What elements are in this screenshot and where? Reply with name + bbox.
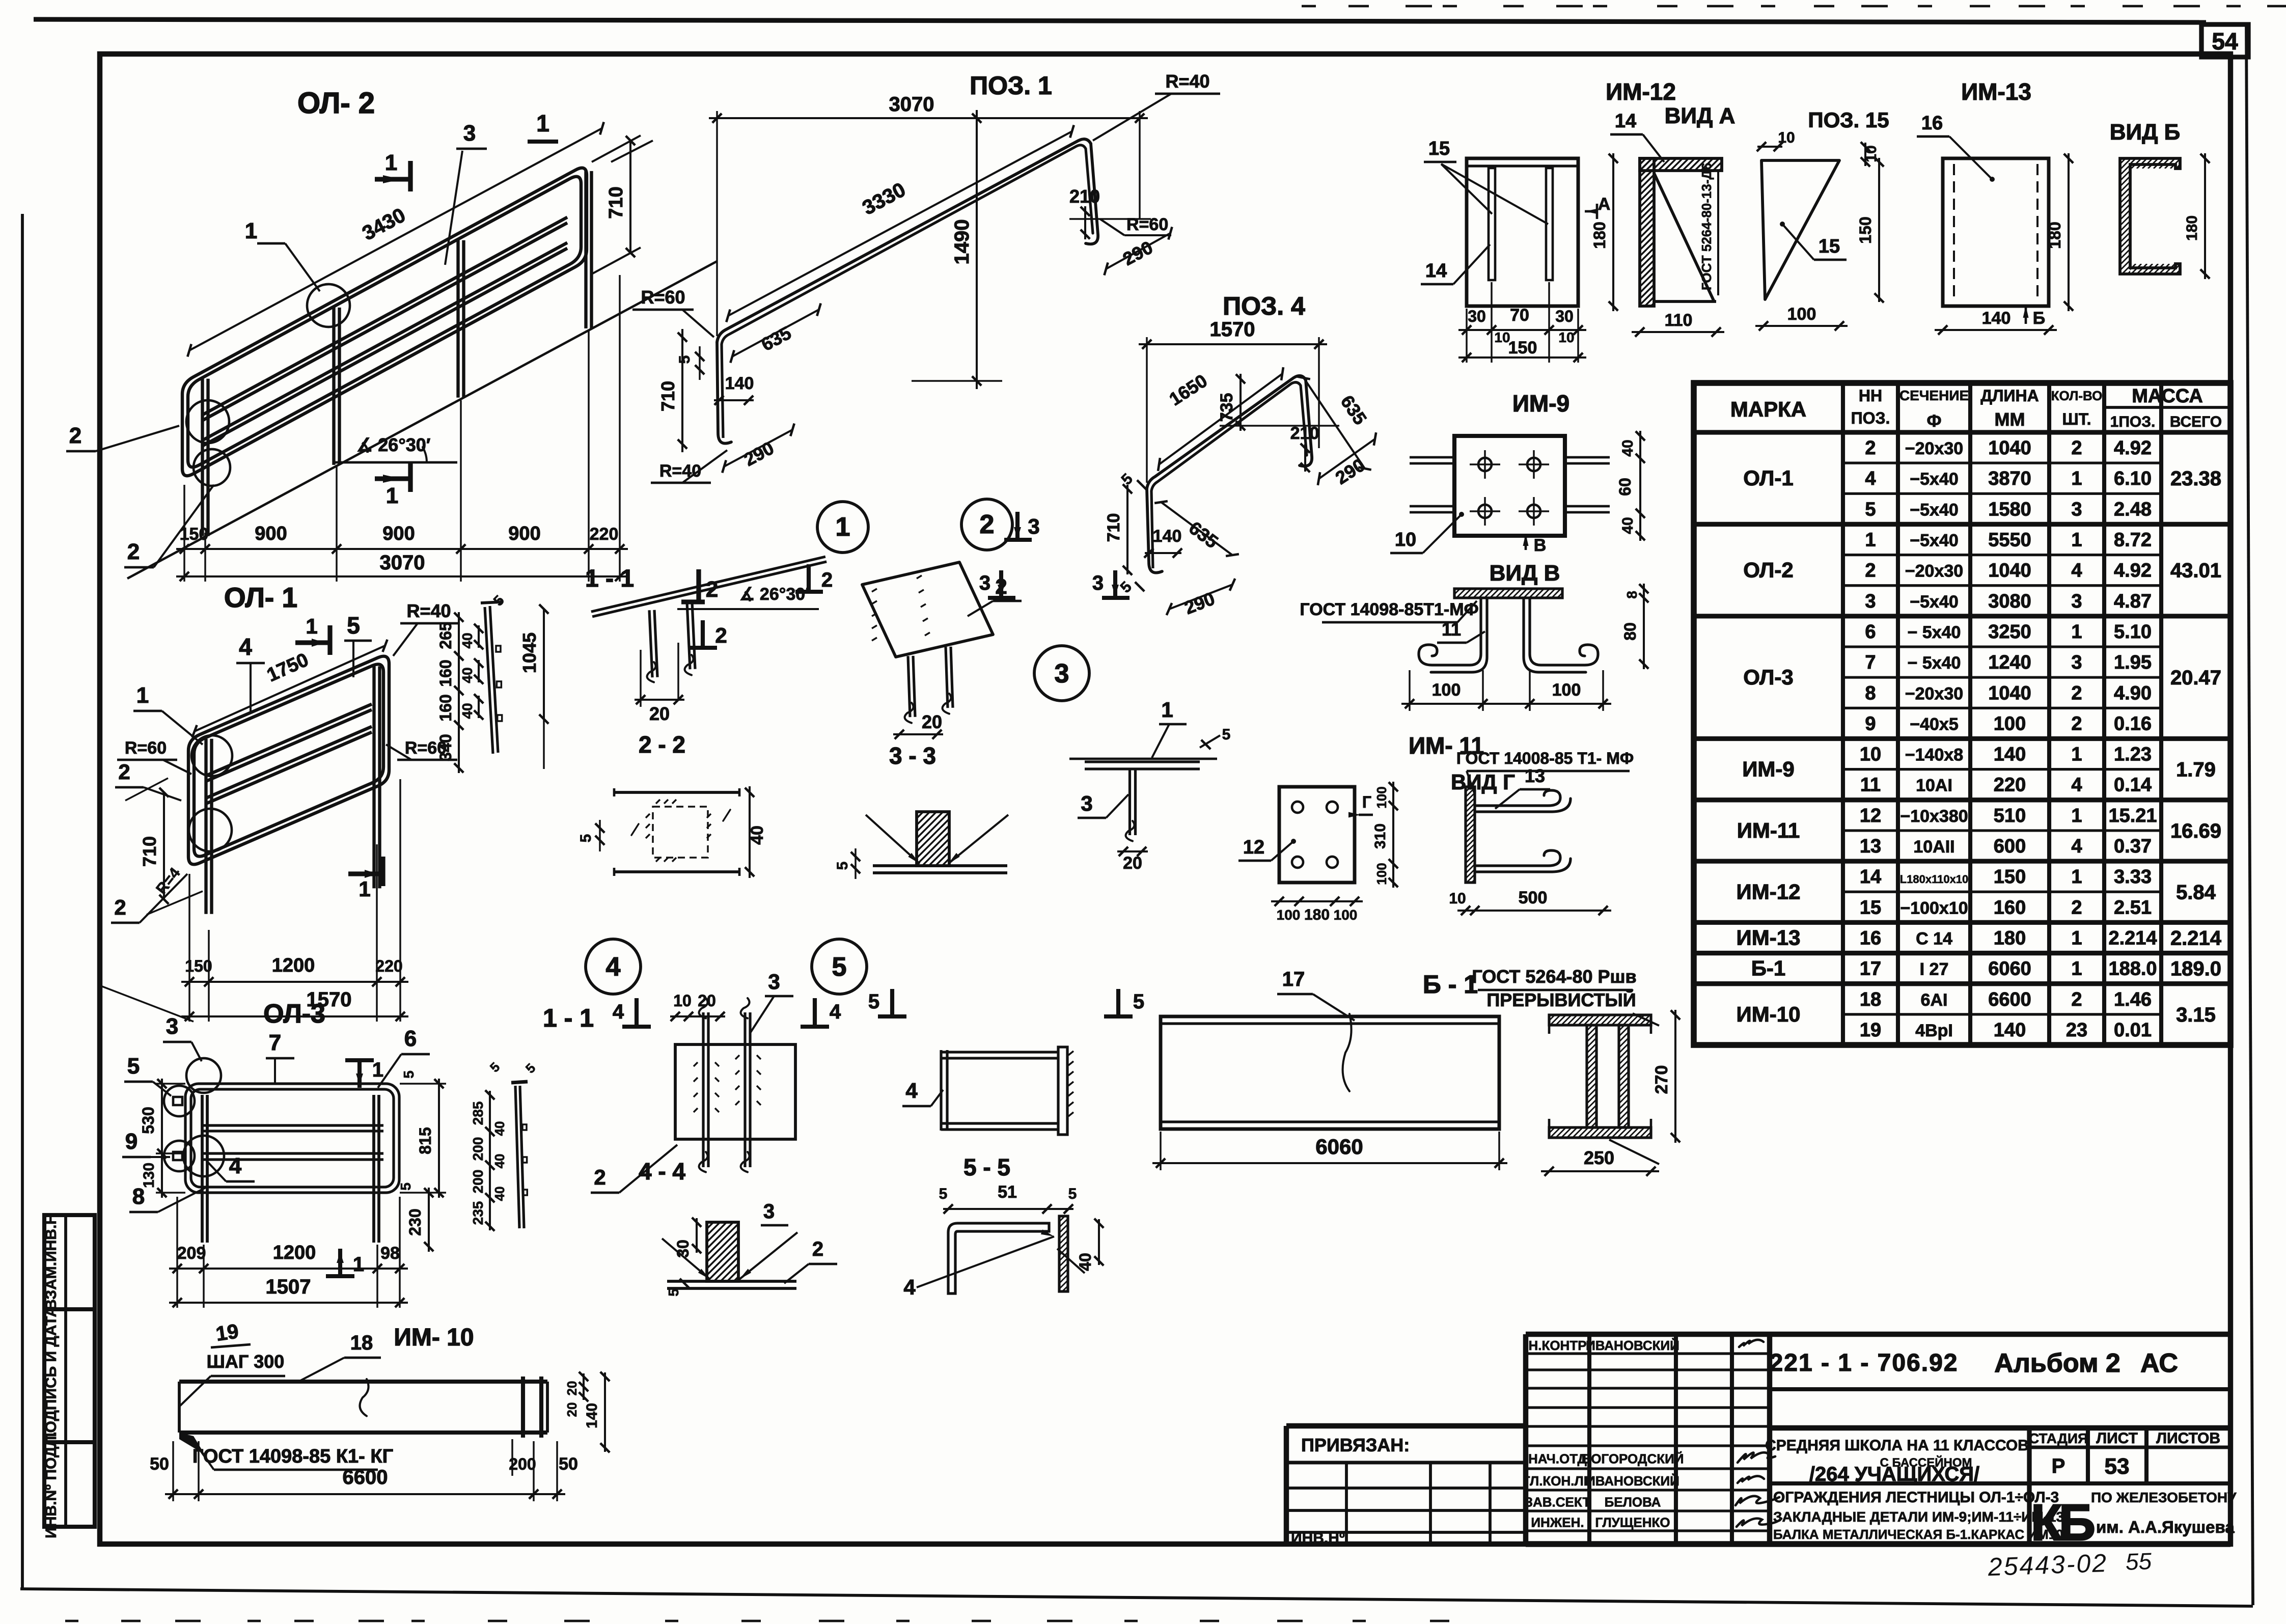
IM-13 dim 180 <box>2068 153 2070 311</box>
title block main box <box>1770 1332 2230 1337</box>
svg-text:15: 15 <box>1860 897 1881 918</box>
I-section dim 250 <box>1541 1170 1659 1172</box>
svg-text:4: 4 <box>2071 775 2082 796</box>
svg-text:2: 2 <box>2071 713 2082 734</box>
OL-2 dim 3430 along slope <box>189 128 602 350</box>
svg-text:735: 735 <box>1217 393 1236 422</box>
svg-text:70: 70 <box>1510 306 1529 325</box>
svg-text:150: 150 <box>185 957 212 975</box>
svg-text:15.21: 15.21 <box>2108 805 2157 827</box>
svg-text:23.38: 23.38 <box>2170 467 2221 490</box>
joint detail dim 20 <box>640 650 641 707</box>
svg-text:900: 900 <box>255 523 287 544</box>
OL-2 section mark 1 bottom <box>375 476 410 481</box>
svg-text:−5х40: −5х40 <box>1910 500 1959 519</box>
svg-text:1: 1 <box>2071 468 2082 489</box>
paper right edge line <box>2246 24 2253 1605</box>
svg-text:ПОЗ.: ПОЗ. <box>1851 409 1890 427</box>
svg-text:5: 5 <box>1133 990 1144 1013</box>
svg-text:I 27: I 27 <box>1920 960 1949 979</box>
svg-text:ОЛ-1: ОЛ-1 <box>1743 466 1793 490</box>
svg-text:1 - 1: 1 - 1 <box>543 1004 594 1032</box>
svg-text:6060: 6060 <box>1315 1135 1363 1159</box>
svg-text:4.87: 4.87 <box>2114 591 2152 612</box>
svg-text:3: 3 <box>768 970 780 994</box>
svg-text:ШТ.: ШТ. <box>2062 410 2091 428</box>
OL-1 long bottom extension line <box>101 986 194 1022</box>
weld detail under 3-3 <box>873 864 1007 867</box>
svg-text:3.15: 3.15 <box>2176 1004 2216 1026</box>
svg-text:4: 4 <box>905 1079 918 1103</box>
svg-text:ИМ-13: ИМ-13 <box>1737 925 1801 949</box>
svg-text:3: 3 <box>463 121 476 146</box>
svg-text:1: 1 <box>306 614 317 638</box>
section mark 4 down-left <box>635 998 639 1027</box>
post bar 1-1 <box>485 607 493 754</box>
svg-text:40: 40 <box>1619 517 1636 534</box>
svg-text:2: 2 <box>2071 437 2082 459</box>
svg-text:R=60: R=60 <box>641 287 685 308</box>
svg-text:ГОСТ 14098-85 К1- КГ: ГОСТ 14098-85 К1- КГ <box>192 1446 393 1467</box>
svg-text:Р: Р <box>2052 1455 2065 1477</box>
railing OL-2 band <box>182 372 202 476</box>
svg-text:ИМ-9: ИМ-9 <box>1512 390 1569 417</box>
svg-text:17: 17 <box>1860 958 1881 980</box>
svg-text:5 - 5: 5 - 5 <box>963 1154 1010 1180</box>
svg-text:1: 1 <box>536 110 549 136</box>
svg-text:ЗАКЛАДНЫЕ ДЕТАЛИ ИМ-9;ИМ-11÷ИМ: ЗАКЛАДНЫЕ ДЕТАЛИ ИМ-9;ИМ-11÷ИМ-13 <box>1773 1509 2064 1525</box>
svg-text:4: 4 <box>2071 560 2082 582</box>
circled pos marker 1 <box>817 502 868 553</box>
svg-text:10: 10 <box>1860 744 1881 765</box>
svg-text:18: 18 <box>350 1332 373 1354</box>
IM-11 view G arrow <box>1359 814 1373 816</box>
svg-text:1: 1 <box>245 218 257 243</box>
svg-text:3080: 3080 <box>1988 591 2031 612</box>
svg-text:3 - 3: 3 - 3 <box>889 742 936 769</box>
svg-text:2: 2 <box>2071 989 2082 1010</box>
svg-text:R=60: R=60 <box>125 738 167 758</box>
svg-text:100: 100 <box>1374 786 1389 808</box>
svg-text:130: 130 <box>141 1163 157 1188</box>
gusset 3-3 plate <box>862 562 993 657</box>
svg-text:3870: 3870 <box>1988 468 2031 489</box>
svg-text:6060: 6060 <box>1988 958 2031 980</box>
tee detail rail bar <box>1069 758 1217 760</box>
svg-text:1: 1 <box>385 150 397 175</box>
tee detail dim 20 <box>1117 850 1148 852</box>
svg-text:2.214: 2.214 <box>2108 927 2157 949</box>
svg-text:340: 340 <box>436 734 455 761</box>
svg-text:54: 54 <box>2212 28 2238 54</box>
svg-text:Альбом 2: Альбом 2 <box>1994 1348 2120 1378</box>
svg-text:14: 14 <box>1425 260 1447 282</box>
svg-text:10: 10 <box>1449 890 1466 907</box>
svg-text:R=40: R=40 <box>406 600 451 621</box>
svg-text:180: 180 <box>1304 906 1330 923</box>
POZ.1 dim 3070 top <box>716 111 718 336</box>
svg-text:ГОСТ 5264-80 Ршв: ГОСТ 5264-80 Ршв <box>1472 966 1636 987</box>
svg-text:4ВрI: 4ВрI <box>1915 1021 1953 1040</box>
post bar dim 1045 <box>543 609 545 719</box>
svg-text:ОГРАЖДЕНИЯ ЛЕСТНИЦЫ ОЛ-1÷ОЛ-3: ОГРАЖДЕНИЯ ЛЕСТНИЦЫ ОЛ-1÷ОЛ-3 <box>1773 1489 2059 1506</box>
circled pos marker 4 <box>586 939 641 994</box>
svg-text:1045: 1045 <box>519 632 540 673</box>
bar IM-10 body <box>179 1380 547 1384</box>
rod POZ.4 body <box>1147 376 1312 573</box>
svg-text:53: 53 <box>2105 1454 2130 1479</box>
svg-text:1507: 1507 <box>266 1276 311 1298</box>
svg-text:8.72: 8.72 <box>2114 530 2152 551</box>
svg-text:4: 4 <box>903 1275 916 1299</box>
poz 15 triangle <box>1761 160 1839 299</box>
svg-text:2.214: 2.214 <box>2170 927 2222 949</box>
svg-text:3: 3 <box>1055 659 1069 689</box>
detail 4 weld ticks <box>694 1062 698 1066</box>
svg-text:1: 1 <box>2071 744 2082 765</box>
svg-text:3: 3 <box>2071 591 2082 612</box>
bar IM-10 left weld wedge <box>179 1433 205 1454</box>
thin bar 1-1 near OL-3 <box>515 1086 519 1228</box>
svg-text:10: 10 <box>1558 329 1574 345</box>
POZ.1 dim 1490 vertical <box>912 380 1002 381</box>
svg-text:ПРИВЯЗАН:: ПРИВЯЗАН: <box>1301 1435 1410 1455</box>
svg-text:4: 4 <box>606 952 621 982</box>
privyazan block <box>1286 1423 1526 1428</box>
svg-text:5: 5 <box>127 1054 140 1079</box>
svg-text:С 14: С 14 <box>1916 929 1952 948</box>
svg-text:10АI: 10АI <box>1916 776 1952 795</box>
OL-2 leader 1 <box>257 242 285 245</box>
svg-text:270: 270 <box>1652 1065 1671 1094</box>
svg-text:6: 6 <box>404 1026 417 1051</box>
section mark 3 down near circled2 <box>1015 512 1020 540</box>
svg-text:2: 2 <box>2071 682 2082 704</box>
svg-text:40: 40 <box>492 1154 507 1169</box>
svg-text:4: 4 <box>1865 468 1876 489</box>
svg-text:5: 5 <box>1068 1186 1077 1202</box>
svg-text:1: 1 <box>2071 530 2082 551</box>
svg-text:210: 210 <box>1290 424 1319 443</box>
svg-text:140: 140 <box>1982 309 2011 328</box>
svg-text:3250: 3250 <box>1988 621 2031 643</box>
svg-text:ПОЗ. 1: ПОЗ. 1 <box>970 71 1052 100</box>
svg-text:5: 5 <box>834 862 851 870</box>
svg-text:ВИД В: ВИД В <box>1490 561 1560 586</box>
svg-text:4: 4 <box>2071 836 2082 857</box>
svg-text:4 - 4: 4 - 4 <box>639 1158 685 1185</box>
svg-text:1.23: 1.23 <box>2114 744 2152 765</box>
section 2-2 break marks <box>631 824 639 835</box>
svg-text:11: 11 <box>1442 619 1461 640</box>
svg-text:12: 12 <box>1243 837 1264 858</box>
svg-text:5: 5 <box>868 990 879 1013</box>
svg-text:230: 230 <box>406 1208 424 1235</box>
svg-text:им. А.А.Якушева: им. А.А.Якушева <box>2096 1518 2235 1536</box>
IM-11 plate <box>1279 787 1355 883</box>
svg-text:100: 100 <box>1374 863 1389 885</box>
joint detail angle 26-30 <box>677 608 819 610</box>
view B channel <box>2120 158 2180 274</box>
svg-text:20: 20 <box>1123 854 1142 873</box>
svg-text:ГОСТ 5264-80-13-Д6: ГОСТ 5264-80-13-Д6 <box>1699 163 1714 291</box>
OL-2 extension lines to dims <box>183 485 185 582</box>
svg-text:ДЛИНА: ДЛИНА <box>1980 387 2039 405</box>
svg-text:150: 150 <box>1994 866 2026 888</box>
svg-text:ОЛ-3: ОЛ-3 <box>1743 665 1793 689</box>
svg-text:6.10: 6.10 <box>2114 468 2152 489</box>
OL-3 extension lines bottom <box>176 1197 178 1308</box>
OL-1 section mark 1 bottom <box>348 871 383 876</box>
svg-text:209: 209 <box>177 1244 206 1263</box>
svg-text:1: 1 <box>1865 530 1876 551</box>
svg-text:4: 4 <box>830 1001 841 1023</box>
svg-text:5: 5 <box>1865 499 1876 520</box>
svg-text:ГОСТ 14098-85Т1-МФ: ГОСТ 14098-85Т1-МФ <box>1300 600 1478 619</box>
svg-text:3070: 3070 <box>380 552 425 574</box>
svg-text:160: 160 <box>436 694 455 721</box>
svg-text:3: 3 <box>166 1014 178 1039</box>
IM-13 dim 140 and B arrow <box>1935 329 2057 331</box>
svg-text:R=60: R=60 <box>1126 215 1168 234</box>
circled pos marker 5 <box>812 939 867 994</box>
svg-text:МАССА: МАССА <box>2132 386 2203 407</box>
svg-text:310: 310 <box>1372 823 1389 849</box>
section mark 5 down-left <box>890 989 894 1016</box>
joint detail section 2 mark <box>807 564 811 592</box>
svg-text:2: 2 <box>594 1165 605 1189</box>
svg-text:1: 1 <box>2071 958 2082 980</box>
svg-text:188.0: 188.0 <box>2108 958 2157 980</box>
svg-text:КОЛ-ВО: КОЛ-ВО <box>2051 388 2103 403</box>
svg-text:15: 15 <box>1819 236 1840 257</box>
svg-text:710: 710 <box>1104 513 1123 542</box>
svg-text:3: 3 <box>1865 591 1876 612</box>
POZ.4 dim 1650 <box>1159 374 1282 464</box>
svg-text:2: 2 <box>114 895 126 919</box>
svg-text:ОЛ-3: ОЛ-3 <box>263 999 325 1029</box>
svg-text:ИНВ.Nº ПОДЛ.: ИНВ.Nº ПОДЛ. <box>43 1432 60 1538</box>
callout circle on OL-2 top rail <box>307 284 350 327</box>
svg-text:−5х40: −5х40 <box>1910 470 1959 489</box>
svg-text:40: 40 <box>492 1187 507 1201</box>
svg-text:710: 710 <box>605 186 627 218</box>
svg-text:ЛИСТОВ: ЛИСТОВ <box>2156 1430 2220 1447</box>
thin bar dims <box>489 1091 491 1230</box>
svg-text:220: 220 <box>375 957 402 975</box>
OL-1 dim 1750 <box>195 646 385 731</box>
OL-2 dim chain 150-900-900-900-220 <box>176 548 628 550</box>
svg-text:1: 1 <box>136 683 149 708</box>
svg-text:6600: 6600 <box>343 1466 388 1489</box>
svg-text:ИВАНОВСКИЙ: ИВАНОВСКИЙ <box>1586 1473 1679 1489</box>
view V channel legs with hooks <box>1419 598 1481 665</box>
svg-text:1: 1 <box>836 512 850 542</box>
svg-text:ИНВ.Нº: ИНВ.Нº <box>1291 1530 1345 1547</box>
svg-text:55: 55 <box>2125 1548 2152 1575</box>
view G bottom dims 10 500 <box>1457 910 1611 912</box>
svg-text:100: 100 <box>1994 713 2026 734</box>
IM-11 bottom dims 100 180 100 <box>1271 900 1363 902</box>
svg-text:−40х5: −40х5 <box>1910 714 1959 734</box>
IM-12 bottom dims <box>1466 309 1467 363</box>
svg-text:100: 100 <box>1552 680 1581 700</box>
svg-text:ЛИСТ: ЛИСТ <box>2096 1430 2138 1447</box>
svg-text:ОЛ- 1: ОЛ- 1 <box>224 582 297 613</box>
svg-text:16.69: 16.69 <box>2170 820 2221 842</box>
svg-text:5: 5 <box>1222 726 1231 743</box>
svg-text:600: 600 <box>1994 836 2026 857</box>
svg-text:2.51: 2.51 <box>2114 897 2152 918</box>
OL-1 dim 1570 <box>181 1015 408 1017</box>
svg-text:ВЗАМ.ИНВ.Н: ВЗАМ.ИНВ.Н <box>43 1214 60 1310</box>
svg-text:ИМ-11: ИМ-11 <box>1737 818 1800 842</box>
svg-text:20: 20 <box>698 992 716 1010</box>
svg-text:НАЧ.ОТД: НАЧ.ОТД <box>1528 1451 1587 1467</box>
svg-text:0.16: 0.16 <box>2114 713 2152 734</box>
svg-text:ПРЕРЫВИСТЫЙ: ПРЕРЫВИСТЫЙ <box>1486 989 1636 1010</box>
svg-text:40: 40 <box>459 667 475 683</box>
angle detail under 5-5 <box>948 1223 1049 1293</box>
svg-text:ИНЖЕН.: ИНЖЕН. <box>1531 1515 1584 1530</box>
svg-text:2: 2 <box>2071 897 2082 918</box>
view B dim 180 <box>2204 153 2206 279</box>
circled pos marker 3 <box>1034 646 1089 701</box>
svg-text:1: 1 <box>2071 866 2082 888</box>
svg-text:7: 7 <box>1865 652 1876 673</box>
svg-text:5: 5 <box>666 1288 681 1297</box>
svg-text:2: 2 <box>715 623 727 647</box>
svg-text:В: В <box>1534 536 1547 555</box>
IM-9 plate <box>1454 436 1565 536</box>
svg-text:1.46: 1.46 <box>2114 989 2152 1010</box>
svg-text:10: 10 <box>1395 529 1416 550</box>
svg-text:3070: 3070 <box>889 93 934 116</box>
svg-text:9: 9 <box>125 1129 137 1154</box>
railing OL-3 frame outer <box>185 1084 399 1193</box>
svg-text:ИМ- 10: ИМ- 10 <box>394 1324 474 1351</box>
svg-text:10: 10 <box>673 992 692 1010</box>
section mark 4 down-right <box>813 998 817 1027</box>
detail 4 bars <box>707 1012 709 1167</box>
svg-text:235: 235 <box>470 1201 486 1225</box>
scanner dashes top <box>1302 5 1316 8</box>
svg-text:1: 1 <box>2071 805 2082 827</box>
svg-text:15: 15 <box>1428 138 1450 159</box>
IM-11 right dims 100 310 100 <box>1392 782 1394 888</box>
bar IM-10 stirrups <box>521 1377 525 1438</box>
IM-11 holes <box>1292 802 1303 813</box>
svg-text:3: 3 <box>1028 514 1039 538</box>
svg-text:5: 5 <box>939 1186 948 1202</box>
svg-text:4: 4 <box>229 1153 242 1178</box>
svg-text:1ПОЗ.: 1ПОЗ. <box>2110 414 2156 430</box>
svg-text:40: 40 <box>1076 1253 1094 1271</box>
svg-text:− 5х40: − 5х40 <box>1908 653 1961 673</box>
stair stringer line under OL-2 <box>127 261 717 579</box>
OL-2 dim 3070 <box>176 575 628 577</box>
IM-10 dims bottom <box>172 1441 174 1501</box>
svg-text:16: 16 <box>1860 927 1881 949</box>
svg-text:23: 23 <box>2066 1020 2087 1041</box>
svg-text:2.48: 2.48 <box>2114 499 2152 520</box>
svg-text:18: 18 <box>1860 989 1881 1010</box>
weld detail under 4-4 <box>667 1280 796 1283</box>
paper top edge line <box>34 19 2206 22</box>
beam B-1 body <box>1161 1016 1499 1129</box>
detail 5-5 weld ticks <box>1068 1051 1073 1055</box>
svg-text:ИМ-12: ИМ-12 <box>1737 879 1801 903</box>
svg-text:17: 17 <box>1282 968 1305 990</box>
handwritten signatures <box>1739 1340 1764 1347</box>
svg-text:1: 1 <box>353 1253 364 1276</box>
svg-text:СЕЧЕНИЕ: СЕЧЕНИЕ <box>1899 388 1969 403</box>
svg-text:1: 1 <box>2071 927 2082 949</box>
detail 4 plate <box>675 1044 795 1139</box>
svg-text:БАЛКА МЕТАЛЛИЧЕСКАЯ Б-1.КАРКАС: БАЛКА МЕТАЛЛИЧЕСКАЯ Б-1.КАРКАС ИМ10 <box>1773 1527 2063 1542</box>
svg-text:60: 60 <box>1616 478 1634 496</box>
svg-text:1040: 1040 <box>1988 560 2031 582</box>
svg-text:4.92: 4.92 <box>2114 437 2152 459</box>
svg-text:МАРКА: МАРКА <box>1730 397 1806 421</box>
svg-text:265: 265 <box>436 622 455 649</box>
svg-text:ВИД Г: ВИД Г <box>1451 770 1515 794</box>
svg-text:ИМ-9: ИМ-9 <box>1742 757 1795 781</box>
I-section dim 270 <box>1674 1010 1676 1143</box>
svg-text:3: 3 <box>1092 572 1104 594</box>
svg-text:815: 815 <box>416 1127 434 1154</box>
circled pos marker 2 <box>961 499 1012 550</box>
svg-text:1: 1 <box>359 877 370 901</box>
OL-2 ext lines right top <box>611 141 653 162</box>
svg-text:ММ: ММ <box>1995 409 2025 430</box>
scanner dashes bottom <box>65 1620 78 1622</box>
view G prongs with hooks <box>1475 790 1560 806</box>
svg-text:180: 180 <box>2184 215 2200 241</box>
section 2-2 dim 40 <box>749 786 751 878</box>
OL-1 callout circles <box>191 735 232 776</box>
POZ.4 dim 735 <box>1220 425 1339 426</box>
svg-text:140: 140 <box>1153 527 1182 546</box>
IM-12 plate front view <box>1467 158 1578 306</box>
svg-text:250: 250 <box>1584 1147 1614 1168</box>
svg-text:150: 150 <box>180 525 209 544</box>
svg-text:5: 5 <box>398 1182 414 1191</box>
OL-3 left dims 530 130 <box>156 1083 185 1084</box>
svg-text:4.90: 4.90 <box>2114 682 2152 704</box>
svg-text:140: 140 <box>1994 744 2026 765</box>
svg-text:СРЕДНЯЯ ШКОЛА НА 11 КЛАССОВ: СРЕДНЯЯ ШКОЛА НА 11 КЛАССОВ <box>1765 1437 2029 1454</box>
svg-text:150: 150 <box>1508 338 1537 357</box>
svg-text:2: 2 <box>69 423 81 448</box>
svg-text:5: 5 <box>577 834 594 843</box>
svg-text:40: 40 <box>459 632 475 648</box>
svg-text:ВСЕГО: ВСЕГО <box>2170 414 2222 430</box>
svg-text:ИМ-10: ИМ-10 <box>1737 1002 1801 1026</box>
svg-text:ШАГ 300: ШАГ 300 <box>207 1351 285 1372</box>
section marks 3 near POZ.4 <box>999 570 1003 598</box>
OL-3 rails <box>203 1124 383 1126</box>
svg-text:А: А <box>1598 195 1611 214</box>
section mark 2 down left <box>701 620 705 648</box>
svg-text:20: 20 <box>922 711 942 732</box>
svg-text:ИМ-13: ИМ-13 <box>1961 78 2031 105</box>
svg-text:6600: 6600 <box>1988 989 2031 1010</box>
svg-text:∡ 26°30′: ∡ 26°30′ <box>739 585 809 604</box>
svg-text:180: 180 <box>1994 927 2026 949</box>
svg-text:50: 50 <box>559 1454 578 1474</box>
svg-text:285: 285 <box>470 1102 486 1125</box>
